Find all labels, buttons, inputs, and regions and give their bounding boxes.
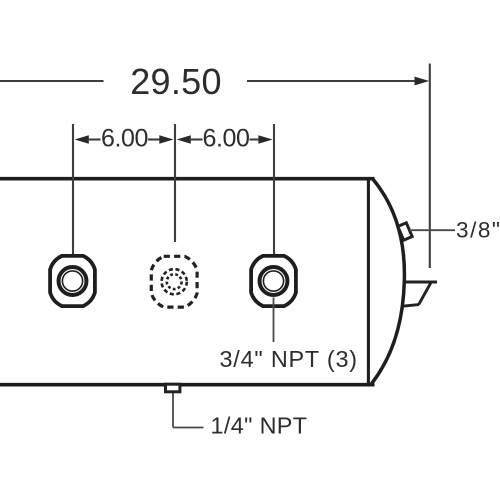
extension line left port [72, 124, 74, 255]
svg-text:3/4" NPT (3): 3/4" NPT (3) [220, 346, 358, 372]
dimension 6.00 second: left arrow [177, 135, 191, 144]
middle port dashed outline [151, 256, 197, 307]
leader from right port [273, 298, 275, 343]
right port outer ring [260, 267, 288, 295]
dimension line 29.50 left segment [0, 80, 104, 82]
middle port dashed inner circle [167, 274, 182, 289]
right port inner ring [263, 271, 283, 291]
extension line right port [273, 124, 275, 255]
middle port dashed outer circle [162, 269, 187, 294]
dimension 6.00 second: left shaft [190, 138, 203, 140]
left port boss outline [50, 256, 95, 306]
drain fitting bottom edge [403, 305, 419, 307]
extension line right for 29.50 [429, 64, 431, 269]
svg-text:6.00: 6.00 [101, 124, 148, 152]
svg-text:1/4" NPT: 1/4" NPT [211, 412, 308, 438]
drain fitting slanted edge [419, 283, 431, 305]
leader from bottom fitting vertical [172, 393, 174, 428]
tank end seam [367, 179, 370, 385]
3/8 fitting on end cap [398, 223, 412, 240]
left port outer ring [59, 267, 87, 295]
left port inner ring [62, 271, 82, 291]
dimension 6.00 second: right shaft [250, 138, 263, 140]
svg-text:29.50: 29.50 [130, 61, 222, 102]
dimension 6.00 first: left arrow [75, 135, 89, 144]
dimension 6.00 first: right arrow [159, 135, 173, 144]
leader for 3/8 [410, 229, 456, 231]
right port boss outline [251, 256, 296, 306]
svg-text:3/8": 3/8" [456, 218, 500, 243]
extension line middle port [174, 124, 176, 242]
arrowhead right of 29.50 [415, 77, 430, 86]
dimension 6.00 first: right shaft [148, 138, 161, 140]
bottom 1/4 fitting [166, 384, 180, 392]
tank bottom line [0, 383, 375, 387]
dimension line 29.50 right segment [247, 80, 416, 82]
tank top line [0, 177, 375, 181]
dimension 6.00 second: right arrow [258, 135, 272, 144]
drain fitting top edge [405, 281, 438, 284]
leader from bottom fitting horizontal [173, 427, 204, 429]
svg-text:6.00: 6.00 [202, 124, 249, 152]
dimension 6.00 first: left shaft [88, 138, 101, 140]
tank end cap curve [372, 180, 405, 384]
